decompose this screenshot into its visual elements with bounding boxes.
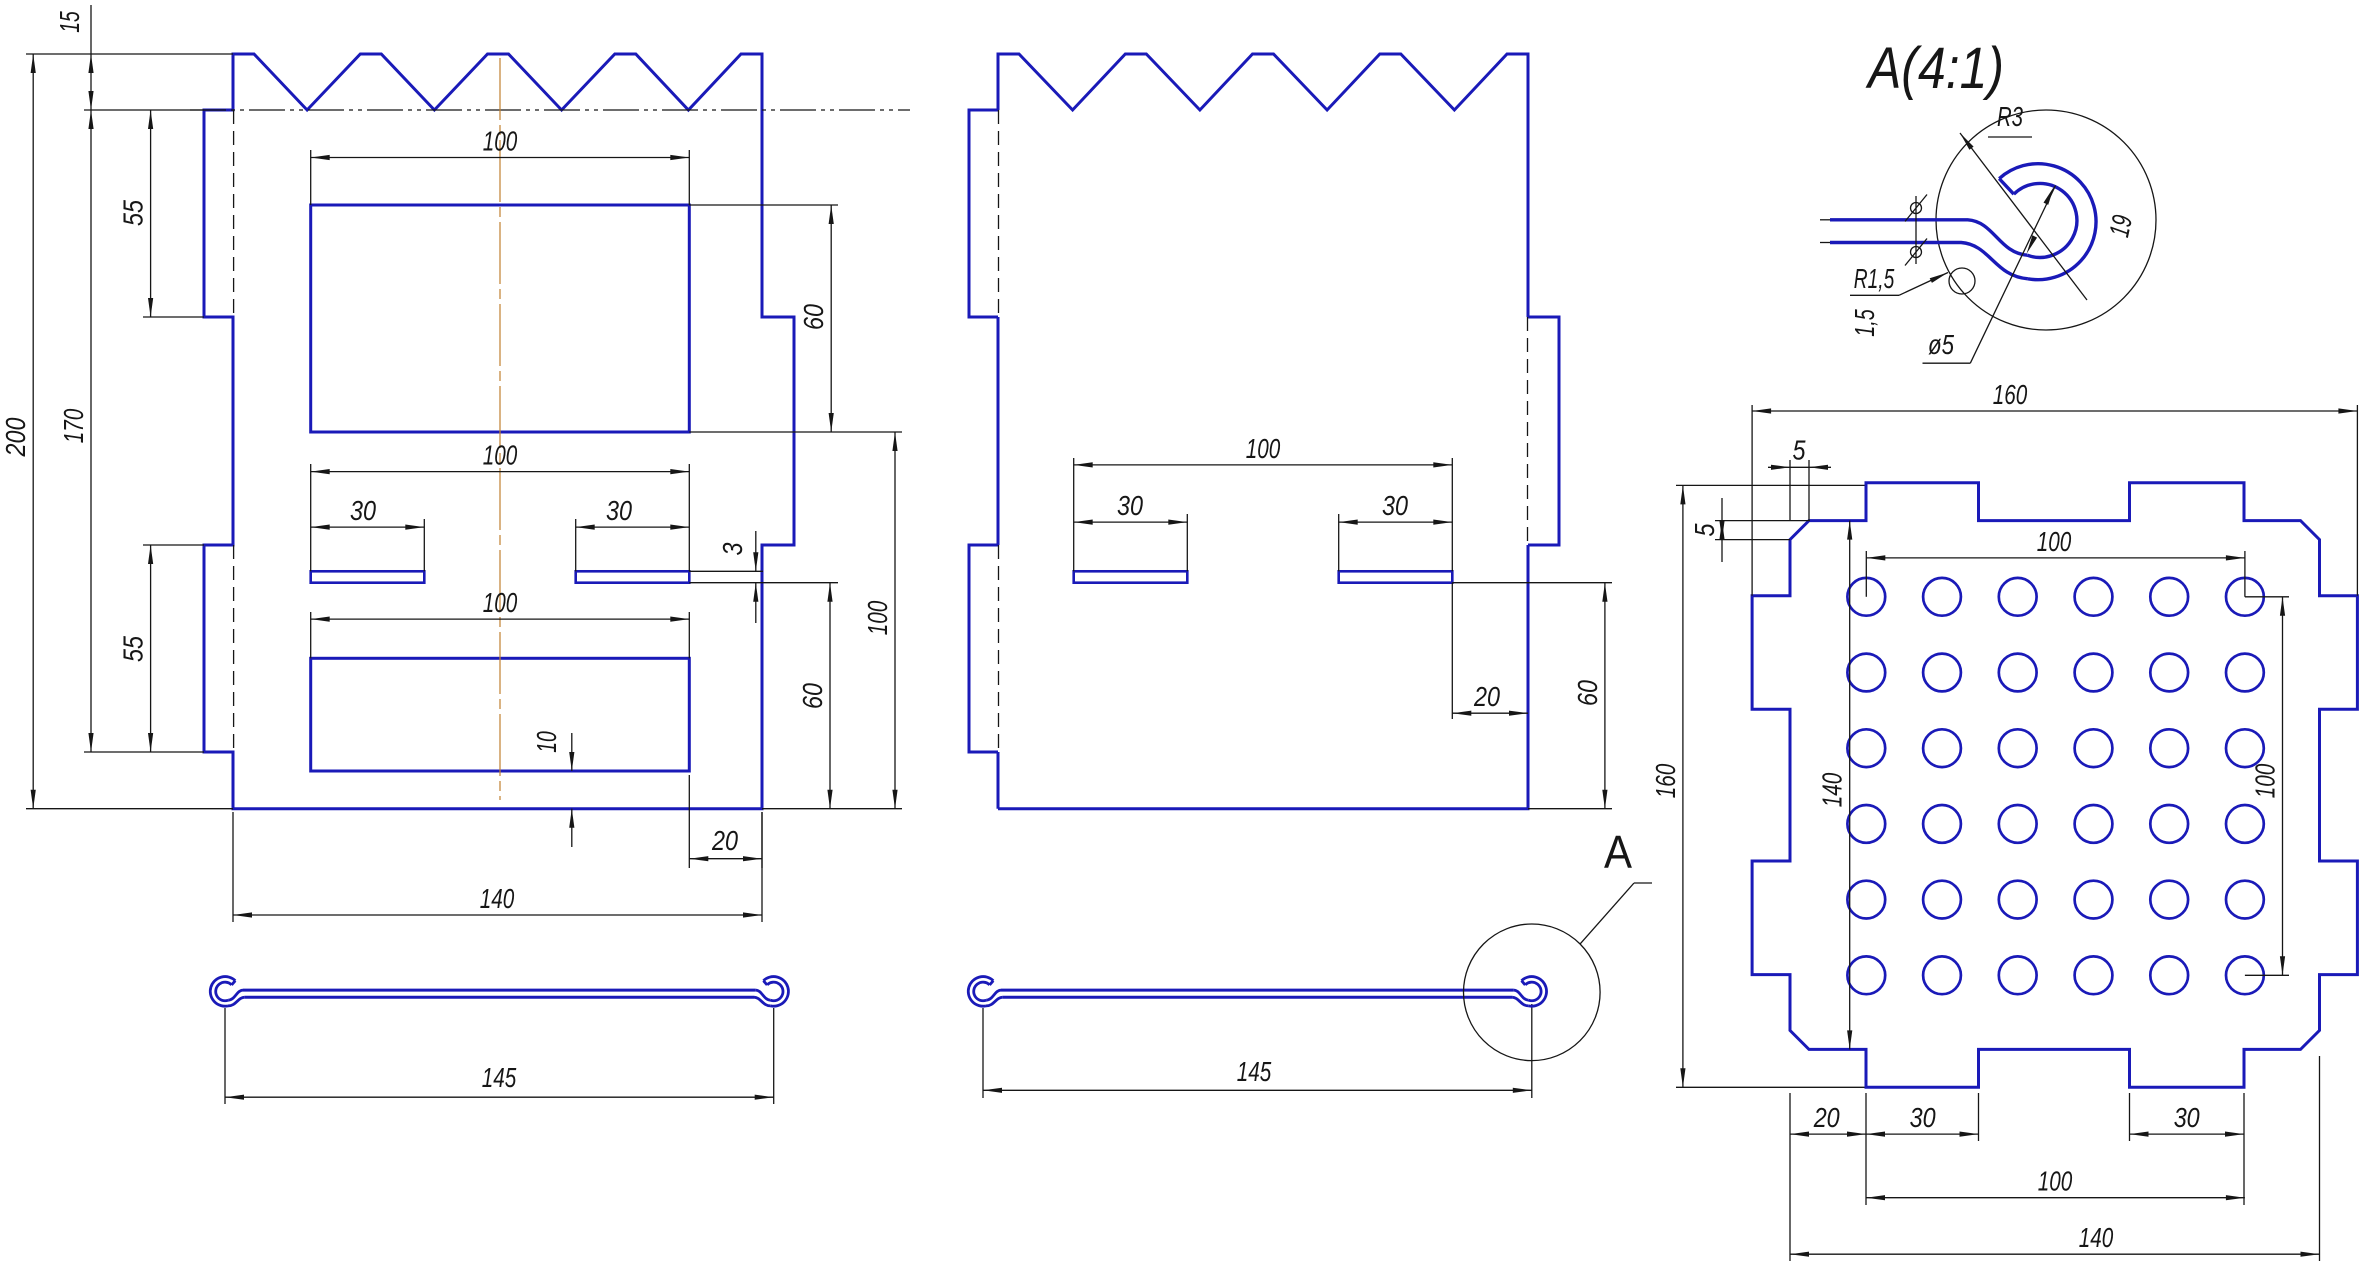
svg-text:160: 160 — [1650, 763, 1681, 798]
svg-text:100: 100 — [862, 600, 893, 635]
svg-text:170: 170 — [58, 408, 89, 443]
svg-text:60: 60 — [797, 683, 828, 709]
svg-text:100: 100 — [1246, 433, 1281, 464]
svg-text:10: 10 — [531, 731, 562, 753]
svg-text:100: 100 — [2037, 526, 2072, 557]
svg-text:20: 20 — [1813, 1102, 1840, 1133]
svg-text:3: 3 — [717, 542, 748, 555]
svg-text:140: 140 — [1817, 772, 1848, 807]
svg-text:160: 160 — [1993, 379, 2028, 410]
svg-text:60: 60 — [798, 304, 829, 330]
svg-text:100: 100 — [483, 126, 518, 157]
svg-text:200: 200 — [0, 417, 31, 457]
svg-text:1,5: 1,5 — [1849, 309, 1880, 337]
svg-text:20: 20 — [1473, 681, 1500, 712]
svg-text:ø5: ø5 — [1928, 329, 1954, 360]
svg-text:R1,5: R1,5 — [1854, 263, 1895, 294]
svg-text:100: 100 — [2250, 763, 2281, 798]
svg-text:30: 30 — [2174, 1102, 2200, 1133]
svg-text:A: A — [1604, 826, 1632, 878]
svg-text:R3: R3 — [1997, 101, 2023, 132]
svg-text:140: 140 — [2079, 1222, 2114, 1253]
svg-text:55: 55 — [118, 636, 149, 662]
svg-text:145: 145 — [482, 1062, 517, 1093]
svg-text:30: 30 — [350, 495, 376, 526]
svg-text:55: 55 — [118, 200, 149, 226]
svg-text:30: 30 — [1382, 490, 1408, 521]
svg-text:5: 5 — [1689, 523, 1720, 536]
svg-text:145: 145 — [1237, 1056, 1272, 1087]
svg-text:5: 5 — [1793, 434, 1806, 465]
svg-text:100: 100 — [483, 587, 518, 618]
svg-text:140: 140 — [480, 883, 515, 914]
svg-text:30: 30 — [1910, 1102, 1936, 1133]
svg-text:20: 20 — [711, 825, 738, 856]
svg-text:100: 100 — [483, 440, 518, 471]
svg-text:30: 30 — [1117, 490, 1143, 521]
svg-text:15: 15 — [54, 11, 85, 33]
svg-text:60: 60 — [1572, 680, 1603, 706]
svg-text:100: 100 — [2038, 1166, 2073, 1197]
svg-text:A(4:1): A(4:1) — [1865, 36, 2004, 101]
svg-text:30: 30 — [606, 495, 632, 526]
